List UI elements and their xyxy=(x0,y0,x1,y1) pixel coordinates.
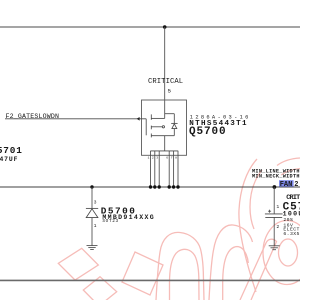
node junction top xyxy=(163,25,167,29)
wire body diode top xyxy=(173,114,175,124)
polarity plus sign xyxy=(268,210,271,212)
svg-text:20%: 20% xyxy=(283,217,293,223)
arrowhead xyxy=(137,117,140,121)
capacitor top plate xyxy=(265,213,283,215)
svg-text:047UF: 047UF xyxy=(0,156,18,163)
capacitor bottom plate xyxy=(265,216,282,218)
svg-text:MIN_NECK_WIDTH: MIN_NECK_WIDTH xyxy=(252,173,300,179)
svg-text:100UF: 100UF xyxy=(283,210,300,217)
body diode cathode bar xyxy=(171,122,177,124)
capacitor C5790 xyxy=(273,185,277,189)
transistor Q5700 mosfet symbol xyxy=(146,114,178,151)
wire drain to body diode xyxy=(165,113,175,115)
ground (diode) xyxy=(87,246,98,250)
diode D5700 xyxy=(90,185,93,188)
pin numbers bottom xyxy=(148,157,178,160)
diode triangle xyxy=(86,209,98,218)
svg-text:SOT23: SOT23 xyxy=(102,219,118,224)
wire diode anode to ground xyxy=(91,218,93,246)
ground (capacitor) xyxy=(269,246,280,250)
body contact circle xyxy=(162,126,164,128)
gate bar xyxy=(145,119,147,136)
wire net to capacitor xyxy=(273,187,275,214)
svg-text:2: 2 xyxy=(294,181,298,189)
svg-text:2: 2 xyxy=(276,224,279,230)
svg-text:3: 3 xyxy=(156,157,158,160)
diode cathode bar xyxy=(86,207,98,209)
net label FAN_2 (highlighted) xyxy=(279,180,294,186)
top border line xyxy=(0,26,300,28)
channel segment source xyxy=(150,134,152,138)
svg-text:FAN: FAN xyxy=(280,181,293,189)
pin bus bar xyxy=(150,150,178,152)
svg-text:3: 3 xyxy=(94,200,97,206)
pin junction dots xyxy=(149,185,180,188)
svg-text:8: 8 xyxy=(175,157,177,160)
channel segment drain xyxy=(150,114,152,119)
svg-text:CRITICAL: CRITICAL xyxy=(148,78,183,86)
channel segment body xyxy=(150,126,152,130)
wire net to diode cathode xyxy=(91,187,93,208)
svg-text:F2_GATESLOWDN: F2_GATESLOWDN xyxy=(6,113,60,120)
svg-text:7: 7 xyxy=(171,157,173,160)
transistor pin wires xyxy=(151,151,179,187)
svg-text:6.3X5.8: 6.3X5.8 xyxy=(283,231,300,237)
svg-text:5701: 5701 xyxy=(0,145,23,156)
svg-text:1: 1 xyxy=(94,223,97,229)
wire body diode bottom xyxy=(173,129,175,136)
wire capacitor to ground xyxy=(273,217,275,245)
wire source vertical xyxy=(164,136,166,151)
svg-text:Q5700: Q5700 xyxy=(189,126,227,138)
bottom border line xyxy=(0,279,300,281)
transistor Q5700 box xyxy=(142,100,187,155)
watermark xyxy=(58,158,311,300)
svg-text:1: 1 xyxy=(276,204,279,210)
main net wire xyxy=(0,186,300,188)
svg-text:5: 5 xyxy=(168,87,172,94)
wire gate F2_GATESLOWDN xyxy=(5,118,146,120)
wire drain vertical xyxy=(164,27,166,118)
drain contact lead xyxy=(151,117,164,119)
source contact lead xyxy=(151,135,174,137)
body contact lead xyxy=(151,126,162,128)
svg-text:2: 2 xyxy=(152,157,154,160)
body diode triangle xyxy=(172,124,177,129)
svg-text:1: 1 xyxy=(148,157,150,160)
svg-text:6: 6 xyxy=(166,157,168,160)
